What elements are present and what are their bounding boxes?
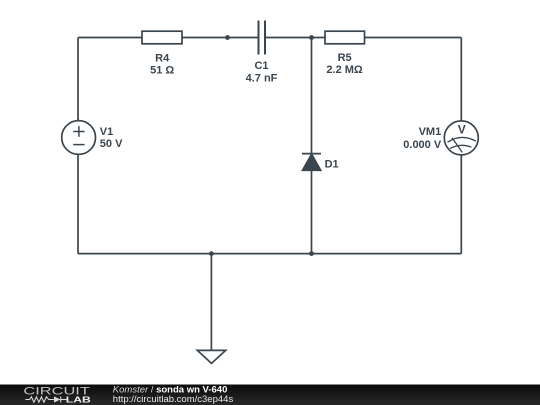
svg-text:V: V [458,122,466,136]
svg-text:D1: D1 [325,159,339,171]
svg-text:R4: R4 [155,52,170,64]
svg-text:51 Ω: 51 Ω [150,64,174,76]
svg-text:C1: C1 [254,60,268,72]
svg-text:4.7 nF: 4.7 nF [246,73,278,85]
svg-text:R5: R5 [338,52,352,64]
svg-text:LAB: LAB [66,394,91,404]
svg-text:VM1: VM1 [419,126,442,138]
svg-text:2.2 MΩ: 2.2 MΩ [326,64,363,76]
svg-text:http://circuitlab.com/c3ep44s: http://circuitlab.com/c3ep44s [113,394,234,405]
svg-text:50 V: 50 V [100,138,123,150]
svg-text:V1: V1 [100,126,113,138]
svg-text:0.000 V: 0.000 V [403,139,442,151]
